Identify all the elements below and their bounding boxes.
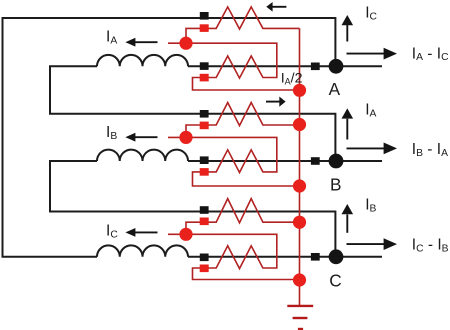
wire: winding B output to node B and beyond (188, 160, 382, 162)
terminal square on wire 6 left (200, 254, 209, 262)
svg-text:B: B (330, 175, 341, 195)
ground (287, 306, 313, 329)
node A (329, 59, 344, 74)
inductor winding C (97, 245, 188, 256)
terminal square on wire 4 left (200, 156, 209, 164)
svg-text:IB - IA: IB - IA (412, 141, 448, 159)
junction dot: phase B tap (179, 131, 192, 144)
arrow: IA up at node B (342, 108, 354, 139)
junction dot: bus R4 return (293, 179, 306, 192)
wire: winding C output to node C and beyond (188, 256, 382, 258)
resistor R4 (lower resistor phase B) with tap wire and return to bus (168, 137, 300, 186)
resistor R6 (lower resistor phase C) with tap wire and return to bus (168, 234, 300, 279)
arrow: IC up at node A (342, 15, 354, 42)
inductor winding A (97, 55, 188, 66)
junction dot: bus R3 end (293, 118, 306, 131)
resistor R2 (lower resistor phase A) with tap wire and return to bus (168, 43, 300, 90)
arrow: IB into winding B (left) (125, 133, 157, 142)
inductor winding B (97, 150, 188, 161)
svg-text:IA: IA (106, 28, 117, 46)
junction dot: phase A tap (179, 37, 192, 50)
svg-text:A: A (329, 79, 341, 99)
arrow: IC-IB out of node C (right) (347, 238, 398, 250)
junction dot: bus R6 return (293, 273, 306, 286)
red terminal square resistor R6 (200, 265, 209, 273)
svg-text:IC - IB: IC - IB (412, 237, 449, 255)
junction dot: phase C tap (179, 228, 192, 241)
svg-text:IC: IC (106, 223, 118, 241)
svg-text:IA - IC: IA - IC (412, 45, 449, 63)
node B (329, 154, 344, 169)
wire: left outer loop vertical and bottom lead to winding C (3, 17, 98, 257)
arrow: IC into winding C (left) (125, 228, 157, 237)
terminal square on wire 6 right (311, 253, 320, 261)
node C (329, 249, 344, 264)
svg-text:IA: IA (365, 102, 376, 120)
resistor R3 (upper resistor phase B) with leads (186, 103, 300, 138)
wire: phase winding C return, left outer loop top (to node A) (3, 18, 336, 62)
arrow: IB up at node C (342, 204, 354, 233)
arrow: current direction right of R3 (right) (266, 97, 286, 107)
junction dot: bus R5 end (293, 216, 306, 229)
arrow: IB-IA out of node B (right) (347, 143, 398, 155)
resistor R1 (upper resistor phase A) with leads (186, 7, 300, 43)
junction dot: bus R2 return (293, 84, 306, 97)
wire: winding A left lead loop down to wire toward node B (50, 66, 335, 157)
red terminal square resistor R1 (200, 24, 209, 32)
arrow: IA into winding A (left) (125, 38, 157, 47)
svg-text:C: C (329, 271, 341, 291)
terminal square on wire 2 right (311, 63, 320, 71)
wire: winding A output to node A and beyond (188, 65, 382, 67)
red terminal square resistor R4 (200, 168, 209, 176)
red neutral bus to ground (299, 28, 301, 306)
red terminal square resistor R3 (200, 122, 209, 130)
terminal square on wire 3 (200, 110, 209, 118)
terminal square on wire 4 right (311, 157, 320, 165)
terminal square on wire 1 (200, 12, 209, 20)
svg-text:IB: IB (365, 197, 376, 215)
terminal square on wire 5 (200, 206, 209, 214)
arrow: current direction above R1 (left) (266, 2, 286, 12)
arrow: IA-IC out of node A (right) (347, 48, 398, 60)
wire: winding B left lead loop down to wire toward node C (50, 161, 335, 252)
svg-text:IC: IC (365, 5, 377, 23)
red terminal square resistor R5 (200, 218, 209, 226)
svg-text:IA/2: IA/2 (281, 71, 303, 87)
svg-text:IB: IB (106, 124, 117, 142)
red terminal square resistor R2 (200, 74, 209, 82)
terminal square on wire 2 left (200, 62, 209, 70)
resistor R5 (upper resistor phase C) with leads (186, 199, 300, 235)
